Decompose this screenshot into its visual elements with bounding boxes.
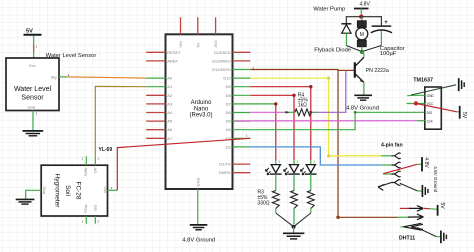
svg-text:Water Level: Water Level xyxy=(14,86,52,93)
svg-text:Vcc: Vcc xyxy=(29,63,36,68)
svg-text:CLK: CLK xyxy=(427,119,434,123)
wire D11 branch to Q1 base (brown) xyxy=(338,69,354,71)
svg-text:A6: A6 xyxy=(167,127,173,132)
pin stub 5V xyxy=(197,17,199,34)
wire R3a bottom xyxy=(275,209,277,214)
connector fan pin4 xyxy=(392,180,401,186)
svg-text:5V: 5V xyxy=(461,112,467,119)
connector fan pin3 xyxy=(383,171,401,177)
wire TM1637 pin1 to ground (dark) xyxy=(411,85,456,95)
svg-text:GND: GND xyxy=(427,94,435,98)
svg-text:Sig: Sig xyxy=(51,74,57,79)
svg-text:5V: 5V xyxy=(196,42,201,47)
sensor DHT11 connector pin3 (to ground) xyxy=(401,223,441,237)
power symbol 5V (top left) xyxy=(24,29,42,35)
pin stub VIN xyxy=(180,17,182,34)
resistor R3 labels xyxy=(258,190,270,207)
ground symbol 4.8V Ground (Q1 emitter) xyxy=(354,95,372,100)
wire FC-28 Vcc stub xyxy=(108,189,118,191)
power symbol 5V (DHT11, rotated) xyxy=(438,203,445,216)
svg-text:4-pin fan: 4-pin fan xyxy=(381,142,403,148)
wire R3c bottom xyxy=(310,209,312,214)
sensor DHT11 connector pin2 (data) xyxy=(398,214,424,220)
resistor R3b 330 xyxy=(291,191,298,209)
ground symbol (Water Level Sensor) xyxy=(23,131,44,136)
wire fan pin4 to ground (dark) xyxy=(400,183,418,191)
svg-text:330Ω: 330Ω xyxy=(258,201,270,207)
svg-text:D9: D9 xyxy=(226,84,232,89)
display TM1637 xyxy=(413,77,441,129)
mcu Arduino Nano U1 xyxy=(166,34,233,189)
svg-text:DIO: DIO xyxy=(427,111,433,115)
wire fan pin4 arrow (dark, dangling) xyxy=(378,183,392,191)
pin stub A0 xyxy=(146,77,165,79)
transistor Q1 PN 2222a xyxy=(355,57,364,94)
wire supply node to diode (black) xyxy=(346,17,361,24)
wire R3a to junction (black) xyxy=(276,213,294,227)
svg-text:VIN: VIN xyxy=(178,41,183,48)
svg-text:3V3: 3V3 xyxy=(213,40,218,48)
junction (green, D4 corner) xyxy=(354,111,357,114)
pin stub FC-28 DO (unconnected) xyxy=(94,216,96,224)
ground symbol (FC-28) xyxy=(16,199,35,204)
svg-text:A5: A5 xyxy=(167,119,173,124)
pin stub 3V3 xyxy=(215,17,217,34)
connector fan pin1 xyxy=(381,153,401,159)
pin stub TM1637 pin2 xyxy=(407,103,425,105)
wire FC-28 Gnd to ground xyxy=(26,190,42,199)
junction (yellow corner) xyxy=(327,77,330,80)
svg-text:TM1637: TM1637 xyxy=(413,77,433,83)
junction (green, motor bottom node) xyxy=(360,50,364,54)
pin stub D13/SCK xyxy=(233,51,251,53)
module FC-28 Soil Hygrometer xyxy=(41,165,108,216)
wire junction to ground xyxy=(293,227,295,233)
pin stub FC-28 AO xyxy=(94,156,96,165)
svg-text:YL-69: YL-69 xyxy=(99,147,113,153)
svg-text:Gnd: Gnd xyxy=(42,187,47,195)
wire YL-69 AO to Arduino A1 (tan) xyxy=(95,86,146,156)
svg-text:+: + xyxy=(384,20,388,26)
wire Arduino GND down xyxy=(197,189,199,225)
pin stub RESET xyxy=(146,51,165,53)
wire motor node to Q1 collector xyxy=(362,52,364,57)
svg-text:A2: A2 xyxy=(167,93,173,98)
pin stub A5 xyxy=(146,120,165,122)
svg-text:D0/RX: D0/RX xyxy=(219,170,231,175)
power symbol 4.8V (fan, rotated) xyxy=(417,157,429,171)
pin stub D12/MISO xyxy=(233,60,251,62)
svg-text:Soil: Soil xyxy=(64,185,71,196)
wire TM1637 pin1 (green, dangling) xyxy=(407,94,425,96)
junction (red, TM1637 pin2) xyxy=(414,101,418,105)
svg-text:AO: AO xyxy=(93,168,98,174)
junction (brown, DHT11 corner) xyxy=(336,216,339,219)
svg-text:DO: DO xyxy=(93,205,98,211)
resistor R3c 330 xyxy=(307,191,314,209)
svg-text:D8: D8 xyxy=(226,93,232,98)
pin stub FC-28 POS (unconnected) xyxy=(85,216,87,224)
svg-text:Water Pump: Water Pump xyxy=(313,7,345,13)
wire R3b bottom xyxy=(293,209,295,225)
pin stub D5 xyxy=(233,120,251,122)
led LED3 xyxy=(301,160,317,190)
svg-text:D7: D7 xyxy=(226,101,232,106)
wire supply node to capacitor (black) xyxy=(361,17,381,26)
pin number marks xyxy=(36,45,316,224)
svg-text:NEG: NEG xyxy=(84,168,89,177)
svg-text:D12/MISO: D12/MISO xyxy=(212,58,231,63)
svg-text:FC-28: FC-28 xyxy=(75,181,82,199)
wire D8 to LED2 (red) xyxy=(250,95,294,160)
wire diode anode to motor node (black) xyxy=(346,46,361,52)
wire D11 to DHT11 data (brown) xyxy=(250,70,397,218)
ground symbol (DHT11, rotated) xyxy=(441,231,447,244)
svg-text:D1/TX: D1/TX xyxy=(219,162,231,167)
diode D1 flyback xyxy=(341,24,351,46)
svg-text:100µF: 100µF xyxy=(380,51,397,57)
wire TM1637 pin2 to 5V (red) xyxy=(416,103,457,111)
connector fan pin2 xyxy=(381,162,401,168)
svg-text:Gnd: Gnd xyxy=(28,104,36,109)
pin stub D8 xyxy=(233,94,251,96)
led LED2 xyxy=(284,160,300,190)
svg-text:Nano: Nano xyxy=(194,106,209,112)
wire FC-28 Vcc to Arduino D3 (red) xyxy=(117,138,250,190)
pin stub D11/MOSI xyxy=(233,69,251,71)
svg-text:A3: A3 xyxy=(167,101,173,106)
svg-text:Vcc: Vcc xyxy=(103,187,108,194)
svg-text:D5: D5 xyxy=(226,119,232,124)
capacitor C1 100uF xyxy=(371,20,392,46)
wire D10 to fan pin1 (yellow) xyxy=(250,78,381,156)
pin stub D2 xyxy=(233,146,251,148)
wire D2 to fan pin2 (blue) xyxy=(250,147,381,165)
svg-text:RESET: RESET xyxy=(167,50,181,55)
wire capacitor to motor node (black) xyxy=(362,46,381,52)
pin stub D9 xyxy=(233,86,251,88)
wire D7 to LED1 (green then red) xyxy=(233,103,276,105)
junction R4 right lead x D9 wire xyxy=(309,111,312,114)
svg-text:A7: A7 xyxy=(167,136,173,141)
junction (red, D8 corner) xyxy=(292,94,295,97)
svg-text:4.8V Ground: 4.8V Ground xyxy=(182,238,215,244)
svg-text:AREF: AREF xyxy=(167,58,178,63)
pin stub D1/TX xyxy=(233,163,251,165)
svg-text:D2: D2 xyxy=(226,144,232,149)
wire D9 to LED3 (red) xyxy=(250,87,310,161)
pin stub A2 xyxy=(146,94,165,96)
power symbol 4.8V (pump) xyxy=(354,1,370,14)
junction (dark red, D7 corner) xyxy=(274,102,277,105)
svg-text:1kΩ: 1kΩ xyxy=(298,102,307,108)
wire fan pin3 to 4.8V (red) xyxy=(383,164,417,173)
ground symbol (LEDs) xyxy=(283,233,304,239)
svg-text:D4: D4 xyxy=(226,127,232,132)
pin stub FC-28 NEG (unconnected) xyxy=(85,156,87,165)
pin stub AREF xyxy=(146,60,165,62)
junction (red, D9 corner) xyxy=(309,85,312,88)
svg-text:POS: POS xyxy=(84,205,89,214)
svg-text:4.8V: 4.8V xyxy=(423,157,429,168)
svg-text:Arduino: Arduino xyxy=(191,100,212,106)
svg-text:D13/SCK: D13/SCK xyxy=(214,50,231,55)
module Water Level Sensor xyxy=(6,53,96,111)
svg-text:GND: GND xyxy=(196,178,201,187)
svg-text:4.8V: 4.8V xyxy=(360,1,371,7)
svg-text:5V: 5V xyxy=(26,29,33,35)
wire R4 right lead to Q1 base (violet) xyxy=(318,71,346,113)
sensor DHT11 connector pin1 xyxy=(400,206,437,212)
pin stub TM1637 pin4 xyxy=(417,120,425,122)
svg-text:D10: D10 xyxy=(223,76,231,81)
svg-text:Hygrometer: Hygrometer xyxy=(54,174,61,209)
pin stub A7 xyxy=(146,137,165,139)
ground symbol 4.8V Ground (Arduino) xyxy=(190,225,208,230)
svg-text:A1: A1 xyxy=(167,84,173,89)
resistor R4 1k xyxy=(285,92,318,115)
power symbol 5V (TM1637, rotated) xyxy=(457,106,467,119)
junction (red, pump supply node) xyxy=(359,15,363,19)
motor M1 water pump xyxy=(356,17,368,51)
pin stub D0/RX xyxy=(233,172,251,174)
pin stub A4 xyxy=(146,112,165,114)
wire 5V to Water Level Sensor Vcc xyxy=(33,36,35,58)
pin stub A1 xyxy=(146,86,165,88)
pin stub A3 xyxy=(146,103,165,105)
pin stub D4 xyxy=(233,129,251,131)
svg-text:D11/MOSI: D11/MOSI xyxy=(212,67,230,72)
svg-text:Sensor: Sensor xyxy=(21,94,44,101)
wire R3c to junction (black) xyxy=(294,213,311,227)
svg-text:Flyback Diode: Flyback Diode xyxy=(314,47,351,53)
wire Water Level Sensor Gnd xyxy=(32,111,34,131)
svg-text:D6: D6 xyxy=(226,110,232,115)
svg-text:5V: 5V xyxy=(439,203,445,210)
svg-text:PN 2222a: PN 2222a xyxy=(366,68,389,74)
resistor R3a 330 xyxy=(272,191,279,209)
led LED1 xyxy=(266,160,282,190)
svg-text:4.8V Ground: 4.8V Ground xyxy=(346,106,379,112)
ground symbol (TM1637, rotated) xyxy=(459,78,465,91)
svg-text:M: M xyxy=(360,32,364,38)
wire D6 to R4 left lead (magenta) xyxy=(250,111,284,113)
junction (LED ground node) xyxy=(292,225,296,229)
wire D4 to TM1637 pin3 (green) xyxy=(250,112,424,129)
svg-text:A4: A4 xyxy=(167,110,173,115)
wire D5 to TM1637 pin4 (magenta) xyxy=(235,120,417,122)
wire Water Level Sensor Sig to Arduino A0 (orange) xyxy=(59,77,146,78)
svg-text:(Rev3.0): (Rev3.0) xyxy=(189,113,212,119)
pin stub A6 xyxy=(146,129,165,131)
ground symbol 4.8V Ground (fan, rotated) xyxy=(418,166,439,197)
pin stub D6 xyxy=(233,112,251,114)
svg-text:A0: A0 xyxy=(167,76,173,81)
svg-text:DHT11: DHT11 xyxy=(399,236,415,242)
pin stub D10 xyxy=(233,77,251,79)
svg-text:4.8V Ground: 4.8V Ground xyxy=(433,166,438,192)
pin stub D3 xyxy=(233,137,251,139)
